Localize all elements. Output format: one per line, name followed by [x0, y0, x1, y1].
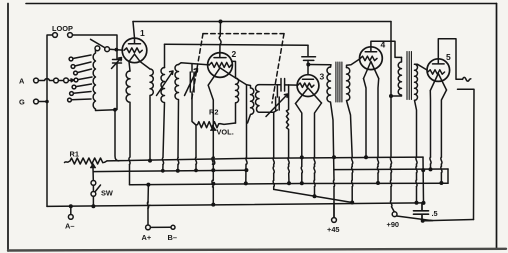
svg-text:VOL.: VOL. — [217, 128, 234, 137]
svg-text:B–: B– — [168, 233, 177, 242]
svg-text:1: 1 — [140, 28, 145, 38]
svg-text:4: 4 — [381, 40, 386, 50]
svg-text:SW: SW — [101, 189, 113, 198]
svg-text:A–: A– — [65, 222, 74, 231]
svg-text:A: A — [19, 77, 25, 86]
svg-text:+90: +90 — [387, 220, 400, 229]
svg-text:3: 3 — [320, 72, 325, 82]
svg-text:R1: R1 — [70, 150, 79, 159]
svg-text:5: 5 — [446, 52, 451, 62]
svg-text:LOOP: LOOP — [52, 24, 73, 33]
svg-text:+45: +45 — [327, 225, 340, 234]
svg-text:.5: .5 — [432, 209, 438, 218]
svg-text:A+: A+ — [142, 233, 152, 242]
svg-text:2: 2 — [232, 49, 237, 59]
svg-text:R2: R2 — [209, 108, 218, 117]
svg-text:G: G — [19, 98, 25, 107]
